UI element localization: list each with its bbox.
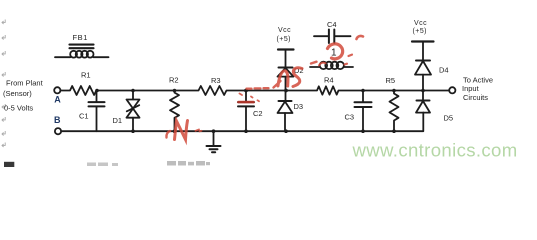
svg-text:FB1: FB1 bbox=[73, 33, 89, 42]
svg-text:To Active: To Active bbox=[463, 75, 493, 84]
svg-text:C3: C3 bbox=[345, 113, 355, 122]
svg-text:Vcc: Vcc bbox=[278, 27, 291, 34]
svg-text:R2: R2 bbox=[169, 76, 179, 85]
svg-text:R5: R5 bbox=[386, 76, 396, 85]
svg-text:Circuits: Circuits bbox=[463, 93, 488, 102]
svg-text:C4: C4 bbox=[327, 20, 337, 29]
svg-text:A: A bbox=[54, 94, 61, 104]
svg-text:R3: R3 bbox=[211, 76, 221, 85]
svg-text:(+5): (+5) bbox=[413, 28, 427, 35]
svg-text:0-5 Volts: 0-5 Volts bbox=[4, 103, 33, 112]
svg-text:www.cntronics.com: www.cntronics.com bbox=[352, 140, 518, 161]
svg-text:(+5): (+5) bbox=[277, 36, 291, 43]
svg-text:R4: R4 bbox=[324, 75, 334, 84]
svg-text:(Sensor): (Sensor) bbox=[3, 89, 32, 98]
svg-text:D3: D3 bbox=[294, 102, 304, 111]
svg-text:D5: D5 bbox=[444, 113, 454, 122]
svg-text:From Plant: From Plant bbox=[6, 79, 44, 88]
svg-text:C1: C1 bbox=[79, 111, 89, 120]
svg-text:Vcc: Vcc bbox=[414, 20, 427, 27]
svg-text:B: B bbox=[54, 115, 61, 125]
svg-text:D1: D1 bbox=[113, 116, 123, 125]
svg-text:C2: C2 bbox=[253, 109, 263, 118]
svg-text:R1: R1 bbox=[81, 70, 91, 79]
svg-text:D4: D4 bbox=[439, 66, 449, 75]
